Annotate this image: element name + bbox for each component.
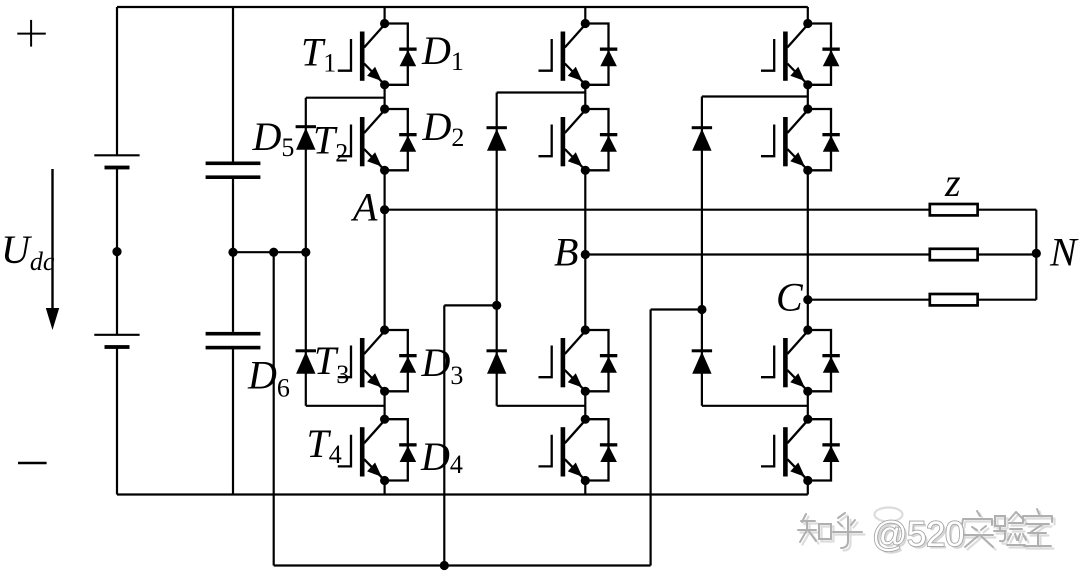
clamp diode leg2 lower [487,349,507,374]
battery B1 [94,155,139,169]
wire: leg2 neutral drop [443,305,445,565]
minus terminal symbol [18,462,47,465]
wire: leg1 upper clamp tap [306,97,385,99]
wire: left source column upper [116,7,118,155]
IGBT leg3 lower-inner with antiparallel diode [761,325,840,396]
svg-text:T2: T2 [313,118,348,168]
junction: node N star point [1032,249,1041,258]
clamp diode leg3 lower [692,349,712,374]
wire: phase B output row [585,253,930,255]
wire: leg3 neutral drop [649,310,651,566]
watermark shadow layer [801,508,1055,551]
wire: leg3 neutral stub [651,308,702,310]
wire: leg3 clamp column [701,97,703,406]
IGBT leg2 lower-inner with antiparallel diode [539,325,618,396]
wire: leg2 clamp column [496,93,498,406]
wire: phase B to star point column [978,253,1037,255]
svg-text:D2: D2 [422,104,465,152]
svg-text:N: N [1049,230,1079,275]
wire: left source column lower [116,349,118,495]
IGBT leg3 lower-outer with antiparallel diode [761,415,840,486]
wire: capacitor column upper [232,7,234,162]
junction: battery midpoint [112,247,121,256]
junction: neutral at leg1 clamp column [301,248,310,257]
wire: leg3 phase column segments [807,7,809,24]
svg-text:@520: @520 [872,515,964,554]
svg-text:A: A [350,185,378,230]
junction: node B [581,250,590,259]
wire: leg2 neutral stub [444,304,496,306]
wire: phase C to star point column [978,299,1037,301]
IGBT T4 with antiparallel diode D4 [338,415,417,486]
load resistor z phase A [930,204,978,215]
junction: node C [803,295,812,304]
svg-text:D4: D4 [420,434,463,479]
battery B2 [94,335,139,349]
wire: star point column [1035,210,1037,300]
svg-text:C: C [776,275,804,320]
svg-text:D1: D1 [421,28,464,76]
svg-text:Udc: Udc [1,227,55,276]
svg-text:B: B [554,230,578,275]
watermark main outline layer [798,509,1052,548]
plus terminal symbol [17,20,46,47]
load resistor z phase B [930,249,978,260]
svg-text:D3: D3 [421,340,464,390]
IGBT leg2 upper-outer with antiparallel diode [539,19,618,90]
clamp diode leg3 upper [692,126,712,151]
wire: phase A output row [385,209,930,211]
wire: leg2 upper clamp tap [497,91,586,93]
watermark 知乎 @520实验室 [798,508,1055,557]
junction: neutral bus and leg2 drop [440,561,449,570]
IGBT leg2 upper-inner with antiparallel diode [539,104,618,174]
wire: neutral row to leg 1 clamp column [233,251,306,253]
wire: leg1 phase column segments [384,7,386,24]
wire: between batteries [116,169,118,335]
wire: leg2 lower clamp tap [497,405,586,407]
junction: leg3 clamp midpoint [697,305,706,314]
svg-text:T4: T4 [307,421,342,469]
capacitor C2 [206,332,261,350]
svg-text:z: z [944,160,961,205]
wire: neutral drop column [273,252,275,565]
wire: capacitor column lower [232,349,234,495]
wire: leg3 upper clamp tap [702,95,808,97]
wire: bottom negative DC bus [117,493,808,495]
svg-text:D5: D5 [252,114,295,162]
IGBT leg2 lower-outer with antiparallel diode [539,415,618,486]
IGBT T1 with antiparallel diode D1 [338,19,417,90]
IGBT leg3 upper-inner with antiparallel diode [761,104,840,174]
clamp diode leg2 upper [487,126,507,151]
load resistor z phase C [930,294,978,305]
clamp diode D6 [296,349,316,374]
svg-text:T3: T3 [314,338,349,389]
wire: phase C output row [808,299,930,301]
wire: leg1 clamp column [305,98,307,406]
wire: phase A to star point column [978,209,1037,211]
wire: capacitor column middle [232,179,234,332]
IGBT T3 with antiparallel diode D3 [338,325,417,396]
Udc arrow [46,169,59,330]
wire: leg1 lower clamp tap [306,405,385,407]
clamp diode D5 [296,125,316,150]
junction: leg2 clamp midpoint [492,301,501,310]
svg-text:D6: D6 [247,353,290,403]
junction: node A [380,205,389,214]
IGBT leg3 upper-outer with antiparallel diode [761,19,840,90]
capacitor C1 [206,162,261,180]
junction: capacitor midpoint neutral [228,248,237,257]
junction: neutral row drop [269,248,278,257]
wire: bottom neutral bus [274,564,651,566]
svg-text:T1: T1 [301,30,336,78]
wire: top positive DC bus [117,6,808,8]
wire: leg3 lower clamp tap [702,405,808,407]
IGBT T2 with antiparallel diode D2 [338,104,417,174]
wire: leg2 phase column segments [584,7,586,24]
